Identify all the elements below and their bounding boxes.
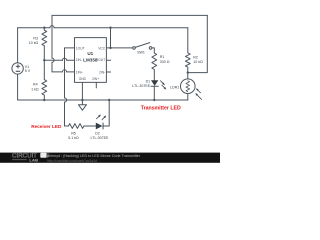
svg-text:1IN+: 1IN+ xyxy=(76,70,83,74)
svg-text:1OUT: 1OUT xyxy=(76,46,85,50)
LED D1 xyxy=(151,86,158,100)
svg-text:2IN+: 2IN+ xyxy=(92,77,99,81)
pin VCC stub xyxy=(106,47,110,49)
switch SW1 xyxy=(133,47,136,50)
node VCC rail junction xyxy=(109,27,111,29)
node GND rail junction xyxy=(81,99,83,101)
wire 1OUT feedback and output column x=64.5 xyxy=(65,48,75,126)
svg-text:R2: R2 xyxy=(193,55,198,59)
svg-text:LTL-307EE: LTL-307EE xyxy=(132,84,151,88)
svg-text:2IN-: 2IN- xyxy=(99,70,105,74)
resistor R5 xyxy=(68,124,84,129)
node R3 top junction xyxy=(43,27,45,29)
svg-text:D2: D2 xyxy=(95,131,100,135)
ground symbol xyxy=(78,100,86,110)
node D2 rail junction xyxy=(108,99,110,101)
wire left rail xyxy=(17,28,19,100)
svg-text:5 V: 5 V xyxy=(25,69,31,73)
svg-text:VCC: VCC xyxy=(98,46,106,50)
node R4 bottom junction xyxy=(43,99,45,101)
resistor R4 xyxy=(42,60,47,100)
svg-text:D1: D1 xyxy=(146,80,151,84)
wire right outer vertical xyxy=(188,15,208,72)
resistor R2 xyxy=(185,28,190,73)
node R3/R4/1IN- junction xyxy=(43,59,45,61)
logo white block xyxy=(40,153,46,158)
LED D2 arrows xyxy=(98,114,106,118)
svg-text:Transmitter LED: Transmitter LED xyxy=(141,106,181,112)
LDR1 arrows xyxy=(195,88,198,96)
svg-text:2OUT: 2OUT xyxy=(96,58,105,62)
LED D1 arrows xyxy=(162,83,166,90)
svg-text:R3: R3 xyxy=(33,36,38,40)
pin 2IN+ stub xyxy=(95,82,97,88)
wire R5 to D2 xyxy=(84,125,96,127)
watermark bar xyxy=(0,153,220,163)
op-amp U1 box xyxy=(75,38,107,83)
svg-text:Receiver LED: Receiver LED xyxy=(31,124,62,129)
wire hop at 64.5,71.9 xyxy=(62,70,66,72)
node VCC pin junction xyxy=(109,47,111,49)
svg-text:LDR1: LDR1 xyxy=(170,85,179,89)
LED D2 cathode bar xyxy=(102,123,105,130)
svg-text:GND: GND xyxy=(79,77,87,81)
resistor R3 xyxy=(42,28,47,61)
wire top rail xyxy=(52,14,207,16)
svg-text:R4: R4 xyxy=(33,82,38,86)
svg-text:SW1: SW1 xyxy=(137,51,145,55)
wire to switch xyxy=(111,47,133,49)
V1 plus minus xyxy=(16,64,20,72)
pin GND stub xyxy=(81,82,83,100)
svg-text:LTL-307EE: LTL-307EE xyxy=(91,136,110,140)
wire hop at 64.5,100 xyxy=(65,98,67,102)
svg-text:R5: R5 xyxy=(71,131,76,135)
voltage source V1 xyxy=(12,63,23,74)
svg-text:5.1 kΩ: 5.1 kΩ xyxy=(68,136,79,140)
pin 2OUT stub xyxy=(106,59,110,61)
wire VCC vertical xyxy=(110,28,112,48)
svg-text:LAB: LAB xyxy=(29,157,38,162)
resistor R1 xyxy=(152,53,157,80)
svg-text:R1: R1 xyxy=(160,55,165,59)
svg-text:1 kΩ: 1 kΩ xyxy=(31,87,39,91)
svg-text:U1: U1 xyxy=(87,51,93,56)
svg-text:pxhmyd : (Hacking) LED to LED: pxhmyd : (Hacking) LED to LED Morse Code… xyxy=(47,154,141,158)
wire hop at 52,27.7 xyxy=(50,26,54,28)
logo LAB xyxy=(12,158,27,161)
pin 2IN- stub xyxy=(106,71,110,73)
wire D2 cathode to rail xyxy=(103,100,109,126)
wire 1IN+ row xyxy=(52,71,75,73)
node R2/LDR junction xyxy=(187,71,189,73)
photoresistor LDR1 xyxy=(187,73,189,79)
wire node 1IN+ column x=52 xyxy=(51,15,53,72)
junction dots xyxy=(43,27,189,102)
svg-text:10 kΩ: 10 kΩ xyxy=(29,41,39,45)
wire 1IN- row xyxy=(44,59,74,61)
svg-text:1IN-: 1IN- xyxy=(76,58,82,62)
wire hop at 52,60.2 xyxy=(52,58,54,62)
wire second rail (+5V) xyxy=(18,27,188,29)
svg-text:10 kΩ: 10 kΩ xyxy=(193,60,203,64)
wire bottom rail xyxy=(18,99,188,101)
svg-text:http://circuitlab.com/cwnk7po2: http://circuitlab.com/cwnk7po2q3d xyxy=(47,159,97,163)
svg-text:330 Ω: 330 Ω xyxy=(160,60,170,64)
LED D1 triangle xyxy=(151,80,158,86)
node D1 rail junction xyxy=(153,99,155,101)
LED D2 triangle xyxy=(96,123,103,130)
